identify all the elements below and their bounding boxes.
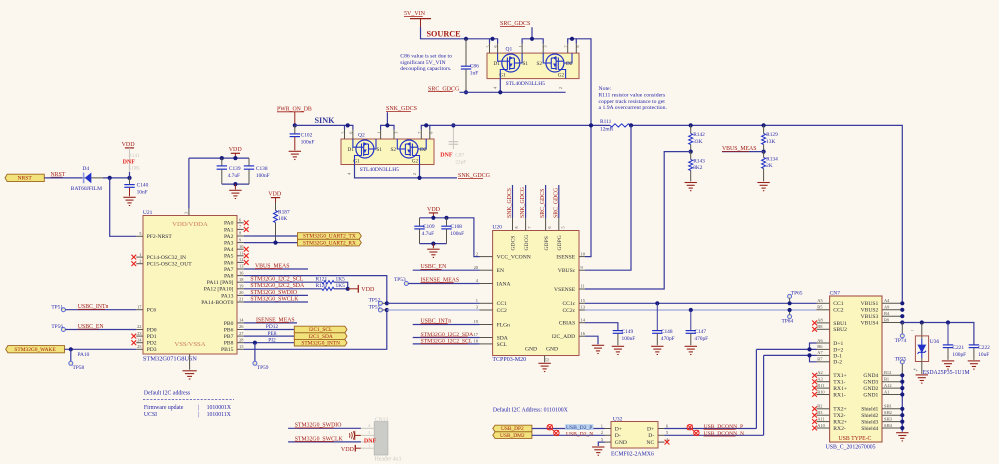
svg-text:PD1: PD1	[147, 334, 157, 340]
port NRST	[5, 174, 44, 181]
capacitor C148 470pF (CC1)	[656, 303, 658, 330]
svg-text:B12: B12	[884, 370, 891, 375]
svg-text:D2: D2	[566, 61, 573, 67]
svg-text:6: 6	[348, 132, 353, 134]
U32 pin 1 D+	[605, 428, 612, 430]
CN13 pin 3	[361, 434, 374, 436]
svg-text:STM32G0_SWCLK: STM32G0_SWCLK	[250, 296, 299, 302]
svg-text:*+: *+	[914, 368, 919, 373]
svg-text:TX2-: TX2-	[833, 413, 845, 419]
CN7 pin SH3 Shield3	[882, 421, 902, 423]
svg-text:PB15: PB15	[221, 347, 234, 353]
wire Q2 gate rail / net SNK_GDCG	[355, 165, 458, 178]
capacitor C149 100nF (CBIAS)	[585, 323, 618, 331]
svg-text:VDD/VDDA: VDD/VDDA	[172, 221, 208, 228]
svg-text:1: 1	[518, 46, 523, 48]
svg-text:TP75: TP75	[895, 356, 907, 362]
svg-text:U21: U21	[143, 210, 153, 216]
svg-text:4: 4	[492, 87, 497, 89]
capacitor C108 100nF	[446, 218, 448, 226]
svg-text:GND2: GND2	[863, 386, 878, 392]
CN7 pin B6 D+2	[817, 348, 830, 350]
U21 pin 21 PA14-BOOT0	[237, 301, 244, 303]
svg-text:7: 7	[417, 132, 422, 134]
svg-text:G1: G1	[353, 159, 360, 165]
svg-text:10K: 10K	[278, 216, 287, 222]
svg-text:C221: C221	[952, 345, 964, 351]
diffpair marker (right)	[687, 425, 699, 436]
svg-text:USB_D2_P: USB_D2_P	[566, 425, 592, 431]
CN7 pin SH1 Shield1	[882, 408, 902, 410]
svg-text:PD0: PD0	[147, 327, 157, 333]
svg-text:Header 4x1: Header 4x1	[375, 456, 402, 462]
svg-text:I2C1_SCL: I2C1_SCL	[309, 327, 332, 333]
svg-text:ISENSE: ISENSE	[556, 255, 576, 261]
svg-text:A3: A3	[817, 377, 823, 382]
svg-text:PA14-BOOT0: PA14-BOOT0	[201, 300, 233, 306]
wire NRST to U21 pin5	[110, 178, 137, 236]
svg-text:A12: A12	[884, 383, 892, 388]
testpoint TP51 + net USBC_INTn	[61, 308, 65, 312]
port I2C1_SCL	[294, 326, 347, 333]
svg-text:PA11 [PA9]: PA11 [PA9]	[207, 280, 234, 286]
wire Q1 D2 to VBUS node	[576, 39, 591, 257]
net STM32G0_SWCLK (PA14)	[244, 301, 308, 303]
svg-text:TX1-: TX1-	[833, 380, 845, 386]
svg-text:TX2+: TX2+	[833, 407, 846, 413]
net VBUS_MEAS (divider)	[722, 151, 764, 153]
svg-text:RX1-: RX1-	[833, 392, 846, 398]
U21 pin 8 PA2	[237, 235, 244, 237]
svg-text:VDD: VDD	[361, 287, 375, 293]
svg-text:10nF: 10nF	[137, 190, 148, 196]
U20 pin 9 VBUSc	[579, 269, 585, 271]
svg-text:PA7: PA7	[224, 267, 234, 273]
svg-text:SCL: SCL	[497, 342, 508, 348]
U21 pin 28 PB8	[237, 342, 244, 344]
svg-text:8K2: 8K2	[693, 165, 703, 171]
svg-text:4.7uF: 4.7uF	[228, 173, 240, 179]
U21 pin 18 PA11 [PA9]	[237, 281, 244, 283]
svg-text:TP51: TP51	[51, 304, 63, 310]
svg-text:Shield4: Shield4	[861, 426, 878, 432]
ground U21	[189, 354, 191, 370]
CN7 pin B8 SBU2	[817, 328, 830, 330]
svg-text:Note:: Note:	[599, 86, 612, 92]
svg-text:R129: R129	[766, 132, 778, 138]
wire caps bottom	[222, 183, 249, 185]
wire CC2 to U20 (highlighted)	[387, 309, 480, 311]
svg-text:R142: R142	[693, 132, 705, 138]
svg-text:GND1: GND1	[863, 392, 878, 398]
svg-text:STM32G071G8U6N: STM32G071G8U6N	[143, 356, 197, 363]
svg-text:C86: C86	[470, 64, 479, 70]
U20 pin 14 CBIAS	[579, 322, 585, 324]
wire VBUSc	[585, 125, 631, 270]
testpoint TP59	[254, 343, 256, 362]
svg-text:R187: R187	[278, 209, 290, 215]
CN7 pin A6 D+1	[817, 342, 830, 344]
svg-text:A7: A7	[817, 350, 823, 355]
svg-text:ESDA25P35-1U1M: ESDA25P35-1U1M	[923, 370, 970, 376]
svg-text:C86 value is set due to: C86 value is set due to	[400, 54, 452, 60]
svg-text:PB8: PB8	[224, 341, 234, 347]
svg-text:5: 5	[485, 46, 490, 48]
svg-text:VDD: VDD	[229, 147, 243, 153]
svg-text:1nF: 1nF	[470, 71, 478, 77]
svg-text:PC6: PC6	[147, 308, 157, 314]
wire NRST	[44, 177, 82, 179]
svg-text:VBUS2: VBUS2	[861, 308, 879, 314]
svg-text:B5: B5	[817, 305, 823, 310]
CN7 pin B11 RX1+	[817, 387, 830, 389]
svg-text:1: 1	[376, 132, 381, 134]
svg-text:NRST: NRST	[17, 176, 32, 182]
svg-text:100nF: 100nF	[450, 231, 464, 237]
wire PA3 UART2_RX	[244, 242, 298, 244]
resistor R129 13K	[763, 125, 765, 133]
capacitor C109 4.7uF	[419, 218, 421, 226]
svg-text:SBU2: SBU2	[833, 327, 847, 333]
svg-text:STM32G0_INTN: STM32G0_INTN	[301, 340, 340, 346]
wire USB_DCONN_N	[665, 434, 764, 436]
svg-text:A8: A8	[817, 318, 823, 323]
svg-text:B6: B6	[817, 344, 823, 349]
testpoint TP58	[70, 349, 72, 361]
svg-text:SDA: SDA	[497, 335, 508, 341]
svg-text:PA2: PA2	[224, 234, 234, 240]
svg-text:PB7: PB7	[224, 334, 234, 340]
CN7 pin B9 VBUS4	[882, 322, 902, 324]
svg-text:VDD: VDD	[427, 207, 441, 213]
resistor R143 8K2	[690, 152, 692, 160]
svg-text:G2: G2	[558, 73, 565, 79]
resistor R142 33K	[690, 125, 692, 133]
U20 pin 19 FLGn	[480, 324, 493, 326]
CN7 pin SH4 Shield4	[882, 427, 902, 429]
svg-text:VBUSc: VBUSc	[558, 268, 576, 274]
svg-text:FLGn: FLGn	[497, 322, 511, 328]
U21 pin 26 PB6	[237, 329, 244, 331]
svg-text:C109: C109	[423, 224, 435, 230]
svg-text:PC15-OSC32_OUT: PC15-OSC32_OUT	[147, 262, 193, 268]
U21 pin 17 PC6	[136, 309, 143, 311]
noerc arcs marker pin3	[349, 431, 355, 440]
capacitor C139 4.7uF	[221, 158, 223, 165]
svg-text:A11: A11	[817, 416, 824, 421]
U21 pin 12 PA6	[237, 261, 244, 263]
svg-text:R134: R134	[766, 156, 778, 162]
testpoint TP65	[788, 294, 792, 298]
svg-text:A2: A2	[817, 370, 822, 375]
svg-text:CN7: CN7	[830, 290, 841, 296]
svg-text:D+: D+	[647, 426, 654, 432]
U20 pin 12 GND	[544, 356, 546, 363]
testpoint TP55	[378, 308, 382, 312]
svg-text:STM32G0_I2C2_SCL: STM32G0_I2C2_SCL	[250, 277, 303, 283]
svg-text:100pF: 100pF	[952, 352, 966, 358]
svg-text:STM32G0_UART2_RX: STM32G0_UART2_RX	[303, 240, 356, 246]
svg-text:11: 11	[239, 251, 243, 256]
CN7 pin A3 TX1-	[817, 381, 830, 383]
U21 pin 16 PA8	[237, 275, 244, 277]
U20 pin 3 CC2	[480, 309, 493, 311]
U21 pin 6 PA0	[237, 222, 244, 224]
svg-text:C139: C139	[229, 166, 241, 172]
testpoint TP56 + net USBC_EN	[61, 328, 65, 332]
U21 pin 5 PF2-NRST	[136, 235, 143, 237]
svg-text:STL40DN3LLH5: STL40DN3LLH5	[506, 81, 546, 87]
svg-text:CC1: CC1	[833, 301, 843, 307]
U20 pin 8 GDCS / net SNK_GDCS	[512, 218, 514, 231]
svg-text:B8: B8	[817, 324, 823, 329]
SINK rail	[295, 124, 345, 126]
ic U20 TCPP03-M20	[493, 231, 579, 356]
svg-text:SH4: SH4	[884, 423, 893, 428]
CN7 pin A5 CC1	[817, 302, 830, 304]
CN13 pin 1	[361, 447, 374, 449]
svg-text:13K: 13K	[766, 139, 775, 145]
CN7 pin A1 GND1	[882, 394, 902, 396]
svg-text:CC2: CC2	[497, 308, 507, 314]
net STM32G0_I2C2_SCL + resistor R121 1K5	[244, 281, 322, 283]
svg-text:CBIAS: CBIAS	[559, 321, 575, 327]
svg-text:R143: R143	[693, 158, 705, 164]
svg-text:RX2-: RX2-	[833, 426, 846, 432]
svg-text:D4: D4	[82, 166, 89, 172]
U21 pin 7 PA1	[237, 228, 244, 230]
capacitor C87 (DNF, ghost)	[452, 125, 454, 149]
U20 pin 16 I2C_ADD	[579, 335, 585, 337]
testpoint TP75	[900, 360, 904, 364]
transistor Q2 STL40DN3LLH5	[341, 139, 434, 165]
net USB_D2_P (highlight)	[565, 424, 593, 430]
wire D+ pair join	[810, 343, 817, 349]
wire VSENSE tap	[585, 152, 691, 289]
U20 pin 4 IANA	[480, 283, 493, 285]
U20 pin 11 VSENSE	[579, 288, 585, 290]
ground U32	[598, 442, 604, 446]
header CN13 (DNF ghost)	[374, 422, 388, 455]
svg-text:PA0: PA0	[224, 221, 234, 227]
svg-text:C102: C102	[301, 133, 313, 139]
svg-text:B7: B7	[817, 357, 823, 362]
svg-text:8: 8	[575, 46, 580, 48]
svg-text:BAT60JFILM: BAT60JFILM	[71, 186, 102, 192]
svg-text:G2: G2	[412, 159, 419, 165]
svg-text:SINK: SINK	[315, 116, 336, 125]
svg-text:A5: A5	[817, 298, 823, 303]
svg-text:Default I2C Address: 0110100X: Default I2C Address: 0110100X	[493, 406, 569, 413]
svg-text:CC2: CC2	[833, 308, 843, 314]
U20 pin 20 EN	[480, 269, 493, 271]
wire USB_D2_P	[532, 428, 605, 430]
svg-text:SH3: SH3	[884, 416, 893, 421]
wire 5V_VIN to SOURCE rail	[421, 27, 490, 39]
capacitor C222 10uF	[969, 345, 979, 348]
svg-text:8: 8	[428, 132, 433, 134]
filter U32 ECMF02-2AMX6	[611, 422, 658, 449]
svg-text:12: 12	[239, 257, 243, 262]
wire PB6	[244, 329, 295, 331]
svg-text:DNF: DNF	[440, 153, 453, 159]
svg-text:2K: 2K	[766, 163, 773, 169]
svg-text:U36: U36	[930, 339, 940, 345]
U21 pin 23 PD1	[136, 335, 143, 337]
svg-text:VCC_VCONN: VCC_VCONN	[497, 255, 531, 261]
svg-text:USB_D2_N: USB_D2_N	[566, 432, 593, 438]
svg-text:PB0: PB0	[224, 321, 234, 327]
svg-text:USB TYPE-C: USB TYPE-C	[839, 436, 872, 442]
CN7 pin B2 TX2+	[817, 408, 830, 410]
svg-text:TP52: TP52	[369, 298, 381, 304]
U21 pin 14 PB0	[237, 322, 244, 324]
CN7 pin SH2 Shield2	[882, 414, 902, 416]
svg-text:SRC_GDCG: SRC_GDCG	[553, 188, 559, 218]
svg-text:TP74: TP74	[895, 338, 907, 344]
svg-text:U32: U32	[613, 416, 623, 422]
resistor R134 2K	[763, 152, 765, 158]
svg-text:DNF: DNF	[364, 438, 377, 444]
svg-text:G1: G1	[499, 73, 506, 79]
port STM32G0_INTN	[294, 339, 347, 346]
svg-text:C87: C87	[455, 153, 464, 159]
U20 pin 1 CC1	[480, 302, 493, 304]
svg-text:A10: A10	[817, 423, 825, 428]
svg-text:SNK_GDCS: SNK_GDCS	[507, 188, 513, 218]
svg-text:PA4: PA4	[224, 247, 234, 253]
svg-text:D-: D-	[648, 433, 654, 439]
svg-text:R121: R121	[316, 277, 328, 283]
svg-text:VSS/VSSA: VSS/VSSA	[174, 341, 205, 348]
CN7 pin B12 GND4	[882, 374, 902, 376]
svg-text:S2: S2	[537, 61, 543, 67]
svg-text:TCPP03-M20: TCPP03-M20	[492, 357, 526, 363]
testpoint TP53 + net ISENSE_MEAS	[404, 282, 408, 286]
svg-text:SOURCE: SOURCE	[427, 30, 462, 39]
CN7 pin A4 VBUS1	[882, 302, 902, 304]
svg-text:TX1+: TX1+	[833, 373, 846, 379]
svg-text:B2: B2	[817, 404, 822, 409]
svg-text:B1: B1	[884, 377, 889, 382]
port STM32G0_WAKE	[6, 346, 65, 353]
U32 pin 6 D+	[658, 428, 665, 430]
CN7 pin B1 GND3	[882, 381, 902, 383]
svg-text:SNK_GDCG: SNK_GDCG	[520, 187, 526, 218]
svg-text:VBUS4: VBUS4	[861, 320, 879, 326]
svg-text:GND4: GND4	[863, 373, 878, 379]
svg-text:PD12: PD12	[266, 324, 279, 330]
svg-text:TP59: TP59	[257, 365, 269, 371]
svg-text:STM32G0_SWDIO: STM32G0_SWDIO	[250, 290, 297, 296]
svg-text:PA13: PA13	[221, 293, 233, 299]
svg-text:GDPS: GDPS	[544, 236, 550, 250]
wire CC1c to CN7	[585, 302, 817, 304]
U21 pin 22 PD0	[136, 329, 143, 331]
svg-text:copper track resistance to get: copper track resistance to get	[599, 99, 666, 105]
U21 pin 19 PA12 [PA10]	[237, 288, 244, 290]
svg-text:GND: GND	[525, 347, 537, 353]
net STM32G0_SWDIO	[288, 427, 361, 429]
svg-text:12: 12	[545, 358, 550, 362]
wire CC1 to U20	[387, 302, 480, 304]
wire USB_DCONN_P	[665, 428, 757, 430]
port STM32G0_UART2_TX	[298, 233, 362, 240]
svg-text:2: 2	[476, 251, 478, 256]
net STM32G0_SWCLK	[288, 441, 361, 443]
resistor R111 12mR	[610, 124, 630, 127]
CN7 pin B7 D-2	[817, 361, 830, 363]
port I2C1_SDA	[294, 333, 347, 340]
net ISENSE_MEAS (PB0)	[244, 322, 297, 324]
svg-text:PC14-OSC32_IN: PC14-OSC32_IN	[147, 255, 186, 261]
svg-text:GND: GND	[546, 347, 558, 353]
svg-text:VDD: VDD	[341, 447, 355, 453]
U21 pin 15 PB15	[237, 348, 244, 350]
CN7 ground rail	[901, 375, 903, 431]
net STM32G0_SWDIO (PA13)	[244, 294, 308, 296]
svg-text:Q1: Q1	[506, 47, 513, 53]
svg-text:2: 2	[558, 87, 563, 89]
capacitor C221 100pF	[947, 323, 949, 345]
svg-text:C138: C138	[256, 166, 268, 172]
svg-text:C149: C149	[622, 329, 634, 335]
svg-text:22pF: 22pF	[455, 160, 466, 166]
svg-text:UCSI: UCSI	[144, 412, 157, 418]
svg-text:R120: R120	[316, 283, 328, 289]
svg-text:6: 6	[547, 227, 552, 229]
U21 pin 9 PA3	[237, 242, 244, 244]
svg-text:1: 1	[601, 423, 603, 428]
net STM32G0_I2C2_SDA (U20)	[413, 337, 480, 339]
svg-text:PA1: PA1	[224, 227, 234, 233]
ground R143	[685, 183, 697, 191]
svg-text:SH1: SH1	[884, 404, 892, 409]
connector CN7 USB TYPE-C	[830, 296, 882, 442]
port USB_DM2	[493, 432, 532, 439]
wire VBUS4 rail right	[902, 323, 974, 345]
svg-text:Q2: Q2	[358, 133, 365, 139]
wire PA2 UART2_TX	[244, 235, 298, 237]
svg-text:3: 3	[393, 132, 398, 134]
wire PB7	[244, 335, 295, 337]
svg-text:CC1: CC1	[497, 301, 507, 307]
U20 pin 17 SDA	[480, 337, 493, 339]
U21 pin 24 PD2	[136, 342, 143, 344]
svg-text:100nF: 100nF	[256, 173, 270, 179]
svg-text:D-: D-	[615, 433, 621, 439]
tvs U36 ESDA25P35-1U1M	[921, 323, 923, 340]
svg-text:GDCS: GDCS	[511, 236, 517, 251]
svg-text:21: 21	[239, 297, 243, 302]
svg-text:VBUS3: VBUS3	[861, 314, 879, 320]
svg-text:U20: U20	[492, 225, 502, 231]
CN7 pin A8 SBU1	[817, 322, 830, 324]
svg-text:PA12 [PA10]: PA12 [PA10]	[204, 287, 234, 293]
svg-text:R141: R141	[128, 153, 140, 159]
wire PB8	[244, 342, 295, 344]
svg-text:100nF: 100nF	[622, 336, 636, 342]
capacitor C147 470pF (CC2)	[690, 310, 692, 330]
svg-text:Shield3: Shield3	[861, 420, 878, 426]
svg-text:100nF: 100nF	[301, 139, 315, 145]
wire caps bottom + ground	[420, 243, 447, 245]
U20 pin 2 VCC_VCONN	[480, 256, 493, 258]
U21 pin 13 PA7	[237, 268, 244, 270]
mcu U21 STM32G071G8U6N	[143, 216, 237, 355]
svg-text:STL40DN3LLH5: STL40DN3LLH5	[360, 167, 400, 173]
svg-text:RX2+: RX2+	[833, 420, 847, 426]
